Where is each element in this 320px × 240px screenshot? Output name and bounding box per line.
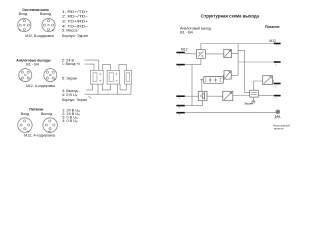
- functional earth screw: [275, 115, 281, 119]
- svg-text:В1 - В4: В1 - В4: [26, 62, 39, 66]
- wire pin3 to buffer: [185, 95, 199, 97]
- left connector pin 3: [176, 95, 184, 97]
- svg-text:М12: М12: [269, 39, 276, 43]
- pin list power: [62, 108, 80, 123]
- wire pin1 to DAC: [185, 53, 197, 55]
- right connector pin 1: [274, 43, 281, 45]
- buffer amp box: [198, 91, 207, 100]
- isolator bottom: [223, 91, 233, 100]
- left connector pin 2: [176, 64, 184, 66]
- connector analog out 2 (M12 A-coded): [44, 69, 57, 82]
- dc/dc box: [250, 90, 259, 97]
- wire chain ch1 to ch2 top: [103, 64, 111, 70]
- svg-text:5: Экран: 5: Экран: [62, 76, 77, 80]
- wire diode box to isolator mid: [222, 75, 225, 79]
- svg-text:Экран: Экран: [244, 101, 253, 105]
- left connector pin 1: [176, 52, 184, 54]
- svg-text:Питание: Питание: [29, 106, 44, 111]
- wire isolator mid out: [231, 74, 238, 76]
- svg-text:М12, А-кодировка: М12, А-кодировка: [26, 84, 56, 88]
- protection diode box: [203, 77, 223, 84]
- svg-text:3: 3: [179, 98, 181, 100]
- mounting screw: [276, 110, 280, 114]
- svg-text:В1 - В4: В1 - В4: [180, 30, 193, 34]
- wire output+ to ch1 left pin: [85, 64, 95, 70]
- wire output- to ch1 bottom left: [86, 84, 92, 90]
- wire chain ch1 to ch2 bottom: [102, 84, 110, 90]
- svg-text:1: 1: [179, 55, 181, 57]
- svg-text:Структурная схема выхода: Структурная схема выхода: [201, 13, 260, 18]
- connector power in (M12 A-coded): [18, 118, 33, 133]
- load channel 2: [107, 70, 120, 84]
- wire 24V to ch1 right pin: [85, 60, 99, 70]
- svg-text:3: 3: [276, 86, 278, 88]
- connector X1 system bus in (M12 B-coded): [18, 19, 31, 32]
- svg-text:4: 0 В UA: 4: 0 В UA: [62, 93, 78, 98]
- wire isolator bottom to dc box: [233, 95, 250, 97]
- svg-text:1: 1: [276, 46, 278, 48]
- wire dcdc top to isolator2: [254, 81, 263, 90]
- svg-text:1: Выход +/I: 1: Выход +/I: [62, 62, 80, 66]
- svg-text:Питание: Питание: [265, 24, 280, 29]
- connector X2 system bus out (M12 B-coded): [42, 19, 55, 32]
- wire isolator2 to pin3: [273, 80, 274, 83]
- connector power out (M12 A-coded): [43, 118, 58, 133]
- right connector pin 2: [274, 61, 281, 63]
- load channel 3: [125, 70, 132, 84]
- svg-text:Выход: Выход: [40, 12, 52, 16]
- functional earth dcdc: [251, 101, 255, 104]
- svg-text:5: 5: [179, 115, 181, 117]
- wire dcdc to pin4: [258, 95, 274, 97]
- wire through buffer vertical: [202, 91, 204, 105]
- leader tick: [88, 96, 91, 98]
- wire 0V bottom bus: [85, 84, 132, 94]
- svg-text:Корпус: Экран: Корпус: Экран: [62, 34, 88, 38]
- isolator mid: [224, 71, 231, 79]
- wire jog: [238, 50, 245, 92]
- svg-text:Корпус: Экран: Корпус: Экран: [62, 98, 87, 102]
- left connector pin 5: [176, 112, 184, 114]
- wire pin2 24V line right: [238, 61, 274, 63]
- DAC box U1: [197, 50, 206, 59]
- svg-text:4: 4: [276, 98, 278, 100]
- svg-text:5: Масса: 5: Масса: [62, 29, 78, 33]
- isolator 1: [224, 49, 232, 57]
- wire stub to clamp box: [200, 79, 203, 91]
- pin list analog outputs: [62, 59, 87, 102]
- wire buffer to isolator bottom: [207, 95, 223, 97]
- svg-text:2: 2: [276, 64, 278, 66]
- svg-text:2: 2: [179, 67, 181, 69]
- right connector pin 4: [274, 95, 281, 97]
- svg-text:М12, А-кодировка: М12, А-кодировка: [24, 134, 56, 138]
- svg-text:Выход: Выход: [41, 112, 53, 116]
- wire isolator1 out: [231, 53, 238, 55]
- wire pin2 vertical down: [191, 65, 193, 106]
- wire 24V top rail: [201, 44, 274, 50]
- wire pin5 shield line to screw: [185, 111, 276, 113]
- svg-text:винт: винт: [274, 127, 285, 131]
- svg-text:М12: М12: [181, 48, 188, 52]
- left connector pin 4: [176, 105, 184, 107]
- isolator 2 power: [263, 76, 273, 85]
- svg-text:3: TD+/RD+: 3: TD+/RD+: [62, 20, 89, 24]
- wire dcdc bottom earth: [253, 97, 255, 101]
- right connector pin 3: [274, 83, 281, 85]
- svg-text:М12, В-кодировка: М12, В-кодировка: [25, 34, 55, 38]
- mini wiring diagram: load channel 1: [90, 70, 103, 84]
- wire chain ch2 to ch3 bottom: [120, 84, 126, 90]
- svg-text:Вход: Вход: [19, 12, 28, 16]
- wire chain ch2 to ch3 top: [119, 64, 126, 70]
- svg-text:Вход: Вход: [21, 112, 30, 116]
- wire dcdc upper stub: [245, 91, 250, 93]
- svg-text:4: 0 В UA: 4: 0 В UA: [62, 119, 78, 124]
- wire vertical bus: [237, 44, 239, 76]
- pin list system bus: [62, 10, 89, 38]
- svg-text:4: 4: [179, 108, 181, 110]
- wire pin4 line: [185, 105, 203, 107]
- svg-text:2: RD–/TD–: 2: RD–/TD–: [62, 15, 89, 19]
- wire DAC to isolator 1: [205, 53, 224, 55]
- wire DAC bottom to pin2: [185, 58, 201, 64]
- connector analog out 1 (M12 A-coded): [19, 69, 32, 82]
- svg-text:1: RD+/TD+: 1: RD+/TD+: [62, 10, 89, 14]
